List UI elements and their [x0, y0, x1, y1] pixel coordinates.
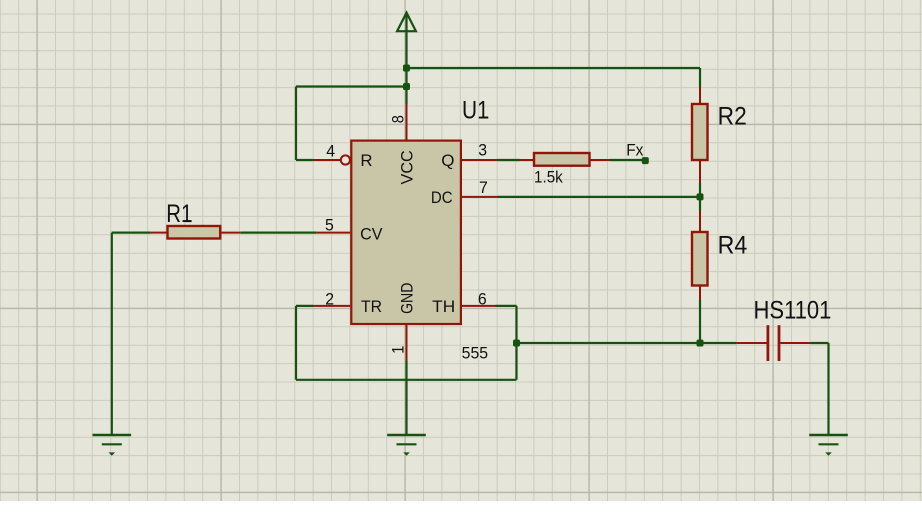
- wire reset loop left: [295, 87, 297, 161]
- label U1 digit-1 serif foot: [482, 117, 488, 119]
- svg-text:R4: R4: [718, 232, 748, 260]
- wire R2 top drop: [699, 68, 701, 87]
- svg-text:3: 3: [478, 140, 487, 159]
- wire 1.5k to Fx: [610, 159, 645, 161]
- wire R1 left: [112, 232, 151, 234]
- junction reset loop: [403, 83, 410, 90]
- resistor R4: [692, 211, 708, 301]
- svg-text:2: 2: [325, 289, 334, 308]
- svg-text:R: R: [360, 151, 372, 170]
- svg-text:TH: TH: [432, 297, 455, 316]
- pin 4 R stub: [314, 159, 341, 161]
- op-amp U1 555 body: [351, 141, 461, 324]
- svg-text:R1: R1: [166, 200, 192, 228]
- wire TH loop right: [515, 306, 517, 380]
- svg-text:1: 1: [389, 346, 408, 354]
- resistor R1: [151, 226, 241, 239]
- wire node drop: [405, 68, 407, 87]
- ground left: [93, 435, 132, 456]
- wire R4 bottom drop: [699, 300, 701, 343]
- pin 8 VCC stub: [406, 104, 408, 140]
- svg-text:Q: Q: [441, 151, 454, 170]
- svg-text:Fx: Fx: [626, 140, 644, 159]
- label R1 digit-1 serif foot: [185, 220, 192, 222]
- wire DC to divider: [498, 196, 700, 198]
- wire GND pin to ground: [405, 361, 407, 435]
- pin 1 GND stub: [406, 325, 408, 361]
- wire TR loop left: [295, 306, 297, 380]
- node Fx dot: [642, 157, 649, 164]
- wire bottom net: [517, 342, 737, 344]
- wire HS1101 right: [811, 342, 829, 344]
- junction VCC rail: [403, 65, 410, 72]
- svg-text:U1: U1: [462, 96, 489, 124]
- resistor 1.5k (series): [520, 153, 610, 166]
- ground right: [809, 435, 848, 456]
- svg-text:8: 8: [389, 115, 408, 123]
- svg-text:R2: R2: [718, 102, 747, 130]
- pin 4 inversion bubble: [341, 155, 350, 164]
- pin 7 DC stub: [462, 196, 498, 198]
- wire reset loop top: [296, 85, 407, 87]
- resistor R2: [692, 87, 708, 183]
- svg-text:5: 5: [325, 215, 334, 234]
- wire TR loop bottom: [296, 379, 517, 381]
- wire pin8 feed: [405, 87, 407, 105]
- wire TR stub: [296, 305, 313, 307]
- pin 3 Q stub: [462, 159, 497, 161]
- svg-text:7: 7: [479, 178, 488, 197]
- svg-text:CV: CV: [360, 225, 383, 244]
- pin 2 TR stub: [313, 305, 350, 307]
- wire divider mid: [699, 183, 701, 211]
- svg-text:TR: TR: [361, 297, 382, 316]
- svg-text:DC: DC: [431, 188, 453, 207]
- wire reset loop to pin4: [296, 159, 314, 161]
- svg-text:6: 6: [478, 289, 487, 308]
- wire HS1101 down to ground: [827, 343, 829, 435]
- wire Q to 1.5k: [497, 159, 520, 161]
- junction divider mid: [697, 193, 704, 200]
- svg-text:555: 555: [462, 344, 488, 363]
- junction divider bottom: [697, 340, 704, 347]
- svg-text:GND: GND: [398, 283, 417, 314]
- power symbol VCC arrow: [397, 13, 416, 68]
- wire VCC rail to R2: [407, 67, 701, 69]
- wire TH stub: [496, 305, 517, 307]
- ground center: [387, 435, 426, 456]
- capacitor HS1101: [737, 325, 811, 361]
- wire R1 to CV: [240, 232, 316, 234]
- junction TH net: [513, 340, 520, 347]
- pin 5 CV stub: [317, 232, 350, 234]
- svg-text:4: 4: [326, 141, 335, 160]
- wire left vertical to ground: [111, 233, 113, 435]
- svg-text:VCC: VCC: [398, 150, 417, 184]
- pin 6 TH stub: [462, 305, 496, 307]
- svg-text:1.5k: 1.5k: [534, 168, 563, 187]
- svg-text:HS1101: HS1101: [754, 297, 832, 325]
